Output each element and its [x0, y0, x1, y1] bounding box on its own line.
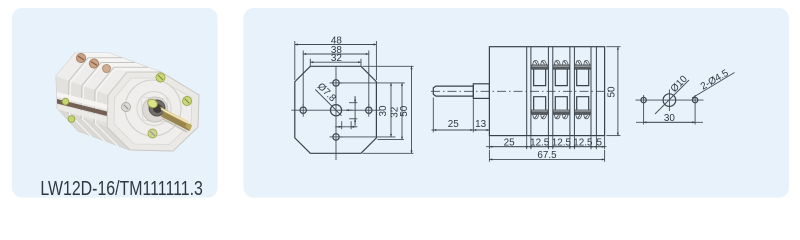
- svg-text:30: 30: [664, 113, 675, 124]
- svg-text:25: 25: [504, 137, 515, 148]
- svg-text:32: 32: [331, 53, 342, 64]
- svg-text:25: 25: [448, 119, 459, 130]
- svg-text:30: 30: [378, 105, 389, 116]
- svg-text:LW12D-16/TM111111.3: LW12D-16/TM111111.3: [40, 177, 203, 200]
- svg-text:5: 5: [597, 137, 603, 148]
- svg-text:13: 13: [475, 119, 486, 130]
- svg-text:12.5: 12.5: [530, 137, 550, 148]
- svg-text:12.5: 12.5: [573, 137, 593, 148]
- svg-text:50: 50: [606, 86, 617, 97]
- svg-text:12.5: 12.5: [552, 137, 572, 148]
- svg-text:50: 50: [399, 105, 410, 116]
- svg-text:67.5: 67.5: [537, 150, 557, 161]
